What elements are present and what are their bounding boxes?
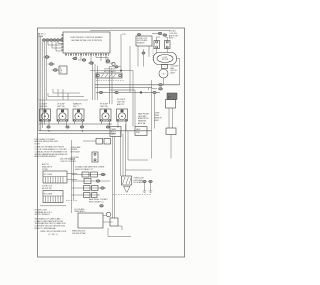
svg-text:UNIT SW: UNIT SW <box>57 106 65 108</box>
oven sensor label <box>155 113 163 122</box>
ground terminals G2 <box>149 180 153 192</box>
svg-text:ELECTRONIC CONTROL BOARD: ELECTRONIC CONTROL BOARD <box>70 36 103 39</box>
wire bus under board <box>72 56 113 63</box>
wire fan drop <box>164 59 180 85</box>
svg-text:SW ASSY: SW ASSY <box>137 42 145 45</box>
relay K1 <box>154 41 160 49</box>
clock module box <box>78 212 113 228</box>
contact row 3 <box>72 186 107 191</box>
svg-text:SHOWN IN THE OFF POSITION: SHOWN IN THE OFF POSITION <box>71 40 102 42</box>
wire center risers <box>93 62 136 127</box>
chassis dashed line <box>113 194 152 196</box>
element terminal box <box>166 128 176 135</box>
inline terminal mid <box>100 205 104 208</box>
latch motor label <box>104 68 117 73</box>
svg-text:GROUND STRAP: GROUND STRAP <box>72 232 86 235</box>
surface switch SW1 <box>40 109 51 121</box>
svg-text:MOTOR SW: MOTOR SW <box>42 188 52 190</box>
switch feed bus <box>39 89 89 100</box>
dashed link <box>152 46 154 60</box>
surface switch SW4 <box>100 109 111 121</box>
wire top bus <box>90 30 170 32</box>
probe jack box <box>135 127 147 136</box>
surface switch labels <box>40 99 126 108</box>
junction box <box>110 218 122 230</box>
notes text block 2 <box>35 146 69 159</box>
door switch label <box>71 157 80 161</box>
clock sub label <box>72 229 86 234</box>
wire mid horizontals <box>90 67 133 72</box>
wire comb1 links <box>67 174 77 180</box>
border frame <box>38 28 185 257</box>
sensor oval S2 <box>106 60 110 63</box>
wire relay col left <box>72 140 74 205</box>
control board bottom pins <box>65 53 108 56</box>
terminal block TB1 labels <box>38 34 46 39</box>
svg-text:( P - DN - L ): ( P - DN - L ) <box>48 234 58 236</box>
fuse F2 <box>48 63 56 66</box>
power cord label <box>35 209 52 216</box>
inline switch contact <box>142 52 145 54</box>
svg-text:P1 CONN: P1 CONN <box>44 174 53 176</box>
svg-text:HIGH VOLTAGE CCT: HIGH VOLTAGE CCT <box>75 168 94 171</box>
svg-text:MOTOR: MOTOR <box>162 59 169 61</box>
connector J1 <box>59 66 67 74</box>
wire vertical lock column <box>121 34 149 93</box>
relay K2 <box>165 41 171 49</box>
broil element hatched box <box>167 93 177 100</box>
under-switch bus 1 <box>39 123 113 125</box>
circuit shown label <box>40 231 67 236</box>
wire clock drops <box>72 205 132 237</box>
power bus N <box>109 89 135 91</box>
sensor oval S1 <box>90 62 94 65</box>
svg-text:FITTED: FITTED <box>42 169 49 171</box>
svg-text:BRKT ASSY: BRKT ASSY <box>71 151 81 154</box>
svg-text:REFER TO MINI MANUAL: REFER TO MINI MANUAL <box>35 227 56 230</box>
door lock switch label <box>169 31 178 40</box>
fuse F1 <box>44 56 51 59</box>
inline terminal <box>115 66 118 68</box>
wire bundle left verticals <box>39 33 46 131</box>
lamp labels <box>71 146 82 154</box>
surface switch SW2 <box>57 109 68 121</box>
probe jack label <box>138 112 150 125</box>
wire bottom mid column <box>113 137 115 219</box>
wires terminal to board <box>48 42 62 52</box>
connector P2 comb <box>43 191 63 203</box>
thermal fuse TF1 <box>73 57 77 60</box>
oven door latch box <box>122 176 132 185</box>
connector P1 comb <box>43 171 67 183</box>
svg-text:12: 12 <box>60 72 62 74</box>
wire relay feeds <box>157 37 168 53</box>
contact row 4 <box>72 193 101 198</box>
door lock motor label 2 <box>42 185 53 189</box>
thermal fuse TF2 <box>82 59 86 62</box>
wire element drop <box>170 135 172 159</box>
power bus L1 <box>95 84 180 86</box>
wire vertical mid risers <box>121 124 152 176</box>
latch harness label <box>60 158 76 162</box>
svg-text:P2 CONN: P2 CONN <box>44 194 53 196</box>
latch assembly bar <box>96 73 122 78</box>
indicator circle <box>112 62 115 65</box>
under-switch bus 2 <box>39 130 152 132</box>
under-switch bus 3 <box>39 132 117 134</box>
control board left pins <box>62 34 64 51</box>
left mid connector box <box>110 127 121 137</box>
svg-text:ASSY 8A: ASSY 8A <box>138 122 146 125</box>
anti-tip label <box>42 163 53 171</box>
contact row 2 <box>72 179 111 184</box>
bus junction dots <box>48 123 110 131</box>
bake element body <box>166 100 176 129</box>
surface switch SW3 <box>73 109 84 121</box>
bake relay label <box>89 198 108 203</box>
lock motor M1 <box>154 53 177 65</box>
notes text block 1 <box>35 139 59 146</box>
door lock motor box <box>122 33 152 46</box>
surface switch SW5 <box>117 109 128 121</box>
lamp relay <box>92 152 98 162</box>
cooling fan label <box>171 65 179 74</box>
svg-text:ANSI FEDERAL AGENCY: ANSI FEDERAL AGENCY <box>35 155 58 158</box>
interlock band label <box>75 166 105 170</box>
svg-text:OVEN CIRCUIT SHOWN DOOR: OVEN CIRCUIT SHOWN DOOR <box>40 231 67 233</box>
DLB contact A <box>152 84 163 87</box>
wire right risers <box>149 80 155 159</box>
fuse F3 <box>52 69 60 72</box>
svg-text:SW 7 7: SW 7 7 <box>73 106 79 108</box>
svg-text:SUPPLY WIRES N: SUPPLY WIRES N <box>35 214 51 216</box>
DLB contact B <box>152 88 163 91</box>
terminal block TB1 <box>42 39 63 42</box>
under-switch terminals <box>47 126 110 128</box>
resistance notes <box>35 217 67 230</box>
wire switch drops <box>41 121 126 131</box>
svg-text:NOTE:: NOTE: <box>35 144 41 146</box>
cam box <box>162 65 168 69</box>
latch travel dashed line <box>96 80 124 82</box>
svg-text:UNIT SW: UNIT SW <box>100 106 108 108</box>
power bus L2 <box>95 87 152 89</box>
door lock switch ovals <box>152 32 167 36</box>
clock label <box>74 208 86 213</box>
svg-text:BROIL RELAY N O: BROIL RELAY N O <box>89 200 104 203</box>
latch label <box>134 177 145 184</box>
oven lamp boxes <box>83 139 111 145</box>
ground terminals G1 <box>143 180 147 192</box>
contact row 1 <box>72 172 107 177</box>
svg-text:AND PLT: AND PLT <box>117 103 125 106</box>
wire comb2 link <box>40 201 77 206</box>
svg-text:UNIT SW: UNIT SW <box>40 106 48 108</box>
control board U1 <box>63 32 110 53</box>
power bus main <box>96 91 160 93</box>
funnel symbol <box>124 187 131 193</box>
cooling fan motor M2 <box>159 69 168 78</box>
